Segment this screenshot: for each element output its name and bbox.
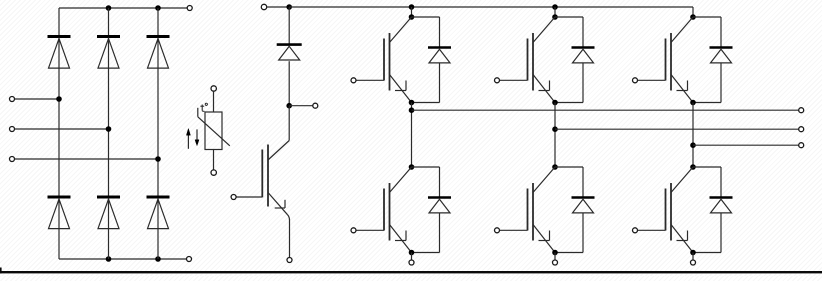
node AC phase 2 junction xyxy=(106,126,112,132)
terminal AC input phase 2 xyxy=(10,127,15,132)
node phase 1 upper emitter junction xyxy=(409,100,415,106)
wire phase 3 upper gate lead xyxy=(638,79,666,81)
wire phase 2 lower gate lead xyxy=(500,229,528,231)
wire phase 3 lower diode jog xyxy=(693,166,721,168)
thermistor R_th body xyxy=(205,112,222,150)
node chopper brake resistor node xyxy=(286,103,292,109)
wire chopper top xyxy=(267,6,290,8)
terminal thermistor top xyxy=(211,86,216,91)
wire chopper emitter lead xyxy=(289,220,291,258)
wire phase 3 upper diode return xyxy=(720,63,722,103)
wire AC input phase 1 xyxy=(15,98,60,100)
terminal chopper DC+ input xyxy=(261,4,266,9)
diode D2L phase 2 lower freewheel xyxy=(572,198,595,213)
terminal phase 2 DC- emitter xyxy=(553,260,558,265)
terminal phase 2 lower gate xyxy=(495,228,500,233)
wire AC input phase 3 xyxy=(15,158,159,160)
node phase 1 lower emitter junction xyxy=(409,250,415,256)
wire rectifier column 1 bottom xyxy=(58,199,60,260)
terminal phase 1 lower gate xyxy=(351,228,356,233)
diode D3 rectifier top row xyxy=(147,37,170,69)
wire phase 2 lower diode return xyxy=(582,213,584,253)
node phase 1 upper collector junction xyxy=(409,14,415,20)
node phase 3 lower collector junction xyxy=(690,164,696,170)
transistor Q7 chopper IGBT xyxy=(236,141,289,221)
terminal rectifier DC+ output xyxy=(187,6,192,11)
label t-degree on thermistor xyxy=(201,105,203,111)
transistor Q phase 3 upper IGBT xyxy=(666,17,694,103)
wire phase 2 rail drop xyxy=(554,7,556,17)
diode D7 chopper freewheel xyxy=(277,45,302,60)
terminal chopper gate xyxy=(231,195,236,200)
wire phase 1 rail drop xyxy=(411,7,413,17)
terminal phase 3 lower gate xyxy=(633,228,638,233)
node phase 3 upper collector junction xyxy=(690,14,696,20)
terminal AC output phase 1 xyxy=(799,108,804,113)
wire phase 2 lower diode jog xyxy=(555,166,583,168)
terminal rectifier DC- output xyxy=(187,257,192,262)
bottom border line xyxy=(0,271,822,273)
terminal thermistor bottom xyxy=(211,170,216,175)
diode D2 rectifier top row xyxy=(97,37,120,69)
node phase 2 output tap xyxy=(552,126,558,132)
terminal phase 3 upper gate xyxy=(633,78,638,83)
wire chopper IGBT collector lead xyxy=(288,106,290,141)
node phase 2 lower emitter junction xyxy=(552,250,558,256)
terminal phase 2 upper gate xyxy=(495,78,500,83)
node phase 2 upper collector junction xyxy=(552,14,558,20)
diode D5 rectifier bottom row xyxy=(97,197,120,229)
node rectifier DC- junction col3 xyxy=(155,256,161,262)
wire rectifier column 1 top xyxy=(58,8,60,37)
wire phase 2 emitter to terminal xyxy=(554,253,556,261)
transistor Q phase 3 lower IGBT xyxy=(666,167,694,253)
node AC phase 1 junction xyxy=(56,96,62,102)
wire chopper diode lower lead xyxy=(288,61,290,105)
diode D1 rectifier top row xyxy=(48,37,71,69)
node rectifier DC+ junction col2 xyxy=(106,5,112,11)
node phase 2 lower collector junction xyxy=(552,164,558,170)
wire phase 1 lower gate lead xyxy=(356,229,384,231)
wire rectifier column 2 middle xyxy=(108,38,110,197)
wire chopper brake tap xyxy=(289,105,313,107)
transistor Q phase 1 upper IGBT xyxy=(384,17,412,103)
diode D6 rectifier bottom row xyxy=(147,197,170,229)
terminal AC output phase 3 xyxy=(799,143,804,148)
arrow up (thermistor current indicator) xyxy=(187,134,189,149)
wire phase 1 upper gate lead xyxy=(356,79,384,81)
diode D1L phase 1 lower freewheel xyxy=(428,198,451,213)
node phase 3 upper emitter junction xyxy=(690,100,696,106)
terminal phase 1 DC- emitter xyxy=(409,260,414,265)
node phase 2 upper emitter junction xyxy=(552,100,558,106)
diode D3L phase 3 lower freewheel xyxy=(710,198,733,213)
wire chopper diode upper lead xyxy=(288,7,290,45)
wire phase 1 midpoint column xyxy=(411,103,413,168)
terminal AC input phase 1 xyxy=(10,97,15,102)
wire rectifier column 2 top xyxy=(108,8,110,37)
node phase 3 output tap xyxy=(690,142,696,148)
wire phase 3 rail corner drop xyxy=(692,7,694,17)
wire phase 3 lower gate lead xyxy=(638,229,666,231)
thermistor diagonal stroke xyxy=(198,117,230,146)
wire phase 1 lower diode return xyxy=(439,213,441,253)
node phase 1 output tap xyxy=(409,107,415,113)
wire thermistor top lead xyxy=(213,91,215,112)
diode D4 rectifier bottom row xyxy=(48,197,71,229)
terminal phase 3 DC- emitter xyxy=(691,260,696,265)
node chopper top junction xyxy=(286,4,292,10)
wire phase 3 lower diode return xyxy=(720,213,722,253)
wire phase 2 midpoint column xyxy=(554,103,556,168)
wire phase 3 upper diode jog xyxy=(693,16,721,18)
terminal phase 1 upper gate xyxy=(351,78,356,83)
wire phase 3 emitter to terminal xyxy=(692,253,694,261)
wire phase 3 AC output line xyxy=(693,144,799,146)
wire phase 3 midpoint column xyxy=(692,103,694,168)
terminal AC input phase 3 xyxy=(10,157,15,162)
node phase 1 DC+ rail junction xyxy=(409,4,415,10)
terminal chopper emitter output xyxy=(287,258,292,263)
wire phase 1 upper diode jog xyxy=(412,16,440,18)
wire AC input phase 2 xyxy=(15,128,109,130)
arrow down (thermistor current indicator) xyxy=(196,129,198,140)
wire phase 2 upper gate lead xyxy=(500,79,528,81)
transistor Q phase 2 upper IGBT xyxy=(528,17,556,103)
wire rectifier positive top rail xyxy=(59,7,187,9)
node phase 1 lower collector junction xyxy=(409,164,415,170)
diode D1U phase 1 upper freewheel xyxy=(428,48,451,63)
node AC phase 3 junction xyxy=(155,156,161,162)
wire rectifier column 3 top xyxy=(157,8,159,37)
diode D3U phase 3 upper freewheel xyxy=(710,48,733,63)
transistor Q phase 2 lower IGBT xyxy=(528,167,556,253)
wire rectifier column 3 middle xyxy=(157,38,159,197)
node rectifier DC+ junction col3 xyxy=(155,5,161,11)
wire phase 1 AC output line xyxy=(412,109,799,111)
terminal chopper brake resistor xyxy=(313,103,318,108)
wire phase 2 upper diode jog xyxy=(555,16,583,18)
wire phase 1 lower diode jog xyxy=(412,166,440,168)
wire rectifier column 3 bottom xyxy=(157,199,159,260)
wire phase 2 upper diode return xyxy=(582,63,584,103)
node phase 2 DC+ rail junction xyxy=(552,4,558,10)
wire phase 1 emitter to terminal xyxy=(411,253,413,261)
node rectifier DC- junction col2 xyxy=(106,256,112,262)
wire DC+ top rail to inverter xyxy=(289,6,693,8)
wire phase 2 AC output line xyxy=(555,128,799,130)
wire rectifier column 2 bottom xyxy=(108,199,110,260)
terminal AC output phase 2 xyxy=(799,127,804,132)
wire phase 1 upper diode return xyxy=(439,63,441,103)
diode D2U phase 2 upper freewheel xyxy=(572,48,595,63)
wire rectifier column 1 middle xyxy=(58,38,60,197)
wire rectifier negative bottom rail xyxy=(59,258,187,260)
transistor Q phase 1 lower IGBT xyxy=(384,167,412,253)
wire thermistor bottom lead xyxy=(213,150,215,171)
node phase 3 lower emitter junction xyxy=(690,250,696,256)
